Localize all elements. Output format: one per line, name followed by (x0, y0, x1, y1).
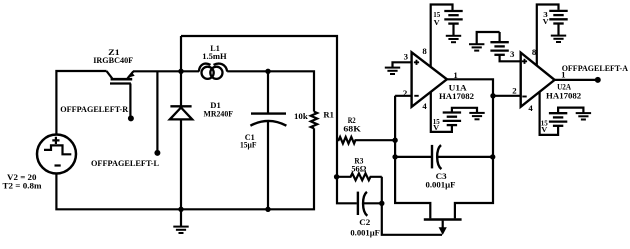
wire L1 left (181, 70, 199, 72)
transistor M1 (424, 218, 462, 221)
U1A plus (414, 60, 419, 65)
U2A minus (522, 96, 526, 98)
ground U1A bottom (469, 113, 484, 119)
svg-text:2: 2 (512, 86, 517, 96)
wire U1A bottom battery to ground (452, 108, 477, 113)
wire Z1 emitter (133, 70, 181, 72)
svg-text:3: 3 (510, 49, 515, 59)
svg-text:4: 4 (422, 101, 427, 111)
svg-text:0.001µF: 0.001µF (350, 227, 380, 237)
wire D1 top (180, 36, 182, 106)
battery 15V U1A bottom (443, 113, 461, 126)
op-amp U2A (521, 53, 555, 107)
wire L1 right to R1 (227, 71, 314, 111)
voltage source V2 (37, 135, 76, 174)
junction node C3-right/M1-source (490, 154, 495, 159)
node OFFPAGELEFT-L (154, 150, 160, 156)
wire V2 top to Z1 collector (56, 71, 106, 135)
ground U2A bottom (576, 113, 591, 119)
ground U1A pin3 (385, 68, 400, 74)
svg-text:HA17082: HA17082 (439, 91, 474, 101)
wire OFFPAGELEFT-L stub (156, 71, 158, 150)
battery 3V U2A top (549, 11, 567, 24)
junction node U1A-out/U2A-pin2 (490, 93, 495, 98)
wire V2 bottom + ground rail + R1 bottom lead (56, 128, 314, 209)
resistor R1 (311, 112, 317, 129)
node OFFPAGELEFT-R (128, 115, 134, 121)
diode D1 (170, 105, 191, 107)
wire U1A pin8 supply lead (431, 5, 453, 67)
Z1 gate line (110, 82, 131, 84)
svg-text:OFFPAGELEFT-L: OFFPAGELEFT-L (91, 158, 159, 168)
svg-text:1.5mH: 1.5mH (202, 51, 227, 61)
junction node Z1-emitter/D1/L1 (178, 69, 183, 74)
ground U1A top battery (446, 36, 461, 42)
svg-text:T2 = 0.8m: T2 = 0.8m (3, 181, 43, 191)
junction node R2/U1A-pin2 (392, 138, 397, 143)
capacitor C1 (267, 71, 269, 112)
svg-text:15µF: 15µF (240, 139, 257, 149)
bias network ground (477, 32, 500, 44)
node OFFPAGELEFT-A (595, 77, 601, 83)
battery 15V U2A bottom (549, 113, 567, 126)
wire node A vertical + JFET drain lead (395, 96, 430, 219)
svg-text:MR240F: MR240F (204, 109, 234, 119)
svg-text:R1: R1 (323, 109, 334, 119)
inductor L1 (199, 64, 227, 79)
svg-text:HA17082: HA17082 (546, 90, 581, 100)
ground (178, 207, 183, 212)
capacitor C3 (395, 156, 432, 158)
wire U1A pin3 to ground (393, 62, 412, 67)
wire U1A output down to JFET source lead (447, 79, 493, 218)
wire U2A pin2 (493, 95, 521, 97)
svg-text:56Ω: 56Ω (351, 164, 366, 174)
svg-text:3: 3 (404, 52, 409, 62)
svg-text:10k: 10k (294, 111, 308, 121)
resistor R3 (337, 173, 382, 180)
svg-text:V: V (434, 18, 440, 27)
svg-text:C2: C2 (359, 217, 370, 227)
Z1 gate lead (129, 84, 131, 117)
wire R3/C2 node down to gate (382, 177, 442, 235)
U2A plus (522, 59, 527, 64)
svg-text:2: 2 (403, 88, 408, 98)
svg-text:4: 4 (528, 103, 533, 113)
svg-text:8: 8 (422, 46, 427, 56)
capacitor C2 (357, 192, 359, 215)
svg-text:0.001µF: 0.001µF (426, 179, 456, 189)
svg-text:V: V (543, 17, 549, 26)
op-amp U1A (412, 52, 447, 107)
battery 3V bias (499, 32, 501, 41)
svg-text:IRGBC40F: IRGBC40F (93, 55, 133, 65)
wire U1A pin2 (395, 95, 412, 97)
transistor Z1 (107, 71, 113, 78)
svg-text:V: V (541, 125, 547, 134)
svg-text:OFFPAGELEFT-R: OFFPAGELEFT-R (60, 104, 129, 114)
battery 15V U1A top (444, 11, 462, 24)
wire D1 bottom (180, 119, 182, 209)
wire feedback top (181, 36, 357, 203)
junction node L1/C1/R1 (265, 69, 270, 74)
ground U2A top (551, 36, 566, 42)
wire U2A output (555, 79, 596, 81)
svg-text:V: V (433, 123, 439, 132)
U1A minus (414, 95, 418, 97)
V2 minus sign (55, 164, 61, 166)
resistor R2 (337, 137, 395, 144)
wire U1A pin4 supply lead (431, 92, 452, 132)
V2 plus sign (52, 137, 59, 144)
wire battery to ground (452, 24, 454, 36)
V2 pulse waveform (44, 145, 71, 154)
svg-text:68K: 68K (343, 124, 361, 134)
svg-text:OFFPAGELEFT-A: OFFPAGELEFT-A (562, 63, 629, 73)
wire U2A pin4 supply lead (540, 92, 559, 135)
wire U2A pin8 supply lead (537, 5, 559, 66)
